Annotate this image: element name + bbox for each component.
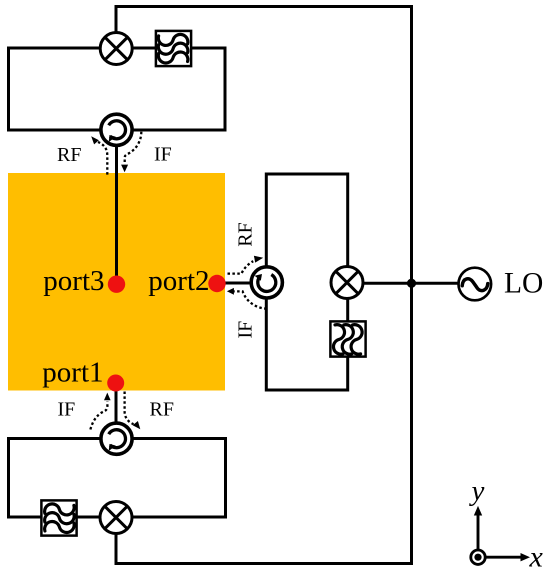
svg-text:RF: RF xyxy=(235,222,257,246)
svg-text:port1: port1 xyxy=(42,357,103,389)
svg-text:LO: LO xyxy=(504,268,543,300)
svg-text:IF: IF xyxy=(235,321,257,339)
svg-text:IF: IF xyxy=(154,144,172,166)
svg-text:port2: port2 xyxy=(148,265,209,297)
svg-text:IF: IF xyxy=(58,399,76,421)
svg-text:RF: RF xyxy=(150,399,174,421)
svg-text:port3: port3 xyxy=(43,265,104,297)
svg-text:y: y xyxy=(469,475,485,507)
svg-text:x: x xyxy=(529,540,544,573)
svg-text:RF: RF xyxy=(57,144,81,166)
